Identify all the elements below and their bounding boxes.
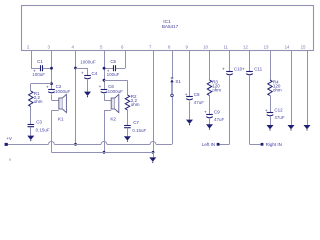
svg-text:+: + [242,67,245,72]
capacitor C8 [185,92,200,100]
svg-text:S1: S1 [175,79,181,84]
svg-text:+: + [46,84,49,89]
pin 11 label [223,44,228,49]
wire junction to C4 [76,68,88,75]
svg-text:11: 11 [223,44,228,49]
IC1 refdes label [163,19,171,25]
svg-text:C8: C8 [194,92,200,97]
wire C6 to K2 [104,94,106,100]
svg-text:ohm: ohm [212,87,221,92]
svg-text:12: 12 [243,44,248,49]
wire pin6 down [125,51,127,69]
resistor R4 [268,80,272,96]
wire S1 down to +V rail [172,97,174,145]
wire K2 down to ground bus [104,111,106,153]
svg-text:+: + [81,70,84,75]
pin 13 label [264,44,269,49]
wire pin15 down [307,51,309,126]
C4 value 1000uF [80,59,96,64]
K1 label [58,116,64,121]
svg-text:+: + [204,110,207,115]
wire junction to R1 [31,84,52,92]
S1 label [175,79,181,84]
C9 value 47uF [214,117,225,122]
stray speck [9,158,10,160]
svg-text:C9: C9 [214,110,220,115]
wire pin12 down [249,51,251,72]
R4 labels 120 ohm [273,79,282,92]
pin 10 label [203,44,208,49]
ground below C12 [267,125,274,131]
pin 14 label [285,44,290,49]
svg-text:0.15uF: 0.15uF [132,128,146,133]
svg-text:ohm: ohm [131,102,140,107]
capacitor C3 [28,119,43,126]
pin 12 label [243,44,248,49]
ground below C4 [84,92,91,98]
wire pin10 down [209,51,211,81]
resistor R1 [29,91,33,107]
capacitor C11 [242,67,263,75]
C12 value 47uF [274,115,285,120]
svg-text:C3: C3 [36,119,42,124]
+V supply rail [6,144,172,146]
wire C1 left [31,68,40,70]
R3 labels 120 ohm [212,79,221,92]
svg-text:47uF: 47uF [274,115,285,120]
switch S1 [170,78,173,97]
wire R3 to C9 [209,96,211,115]
speaker K2 [104,94,119,112]
node pin4/C4 junction [74,67,77,70]
wire K1 down to ground bus [51,111,53,153]
resistor R2 [125,95,129,110]
ground bus wire [51,152,153,154]
C2 value 1000uF [55,89,71,94]
Right IN label [266,142,282,147]
svg-text:Left IN: Left IN [202,142,215,147]
capacitor C9 [204,110,220,118]
wire C8 to ground [189,101,191,119]
pin 8 label [168,44,171,49]
wire C7 to ground [127,128,129,136]
C1 value 100uF [32,72,45,77]
svg-text:+V: +V [6,136,13,141]
wire hop over pin7 wire [150,142,156,145]
wire pin8 down [172,51,174,79]
wire pin7 down to ground bus [153,51,155,153]
C6 value 1000uF [108,89,124,94]
svg-text:C2: C2 [56,84,62,89]
node pin5/R2 junction [103,79,106,82]
svg-text:47uF: 47uF [194,100,205,105]
pin 9 label [186,44,189,49]
svg-text:0.15uF: 0.15uF [36,127,50,132]
capacitor C7 [124,120,139,128]
svg-text:+: + [222,67,225,72]
R1 labels 2.2 ohm [34,91,43,104]
wire C3 to ground [30,127,32,136]
ground below C7 [124,136,131,142]
wire pin14 down [291,51,293,126]
pin 5 label [100,44,103,49]
ground below pin14 [288,125,295,131]
svg-text:1000uF: 1000uF [80,59,96,64]
wire R4 to C12 [270,96,272,113]
svg-text:C7: C7 [133,120,139,125]
wire pin11 down [229,51,231,72]
svg-text:100uF: 100uF [32,72,45,77]
node pin3/C1 junction [50,67,53,70]
svg-text:1000uF: 1000uF [108,89,124,94]
wire C5 left [104,68,113,70]
svg-text:47uF: 47uF [214,117,225,122]
capacitor C10 [222,67,243,75]
pin 15 label [301,44,306,49]
pin 4 label [72,44,75,49]
svg-text:1000uF: 1000uF [55,89,71,94]
svg-text:C1: C1 [37,59,43,64]
C7 value 0.15uF [132,128,146,133]
ground symbol at bus end [149,152,156,163]
R2 labels 2.2 ohm [131,94,140,107]
svg-text:C5: C5 [110,59,116,64]
svg-text:+: + [99,84,102,89]
wire pin2 down [31,51,33,69]
wire pin5 down [104,51,106,90]
Left IN label [202,142,215,147]
capacitor C4 [81,70,98,78]
ground below C3 [27,136,34,142]
wire C12 to ground [270,117,272,125]
svg-text:K1: K1 [58,116,64,121]
C8 value 47uF [194,100,205,105]
ground below pin15 [304,125,311,131]
node pin4 on +V rail [74,143,77,146]
wire pin4 down to +V rail [75,51,77,145]
capacitor C5 [107,59,117,74]
C3 value 0.15uF [36,127,50,132]
pin 3 label [48,44,51,49]
svg-text:ohm: ohm [34,99,43,104]
wire C9 to ground [209,119,211,124]
wire C10 down to Left IN corner [220,76,230,145]
op-amp IC U1 body (BA5417) [22,6,314,51]
svg-text:10: 10 [203,44,208,49]
svg-text:13: 13 [264,44,269,49]
wire pin3 down [51,51,53,90]
wire R2 to C7 [127,110,129,126]
svg-text:BA5417: BA5417 [162,24,179,29]
svg-text:C11: C11 [254,67,262,72]
wire C4 to ground [87,80,89,92]
pin 2 label [27,44,30,49]
wire pin9 down [189,51,191,97]
svg-text:K2: K2 [110,116,116,121]
BA5417 value label [162,24,179,29]
pin 6 label [121,44,124,49]
wire C1 right [43,68,52,70]
svg-text:Right IN: Right IN [266,142,282,147]
ground below C8 [186,120,193,126]
svg-text:C4: C4 [92,71,98,76]
svg-text:C12: C12 [274,108,283,113]
node Left IN terminal [217,143,220,146]
node pin5/C5 junction [103,67,106,70]
wire hop over K1 wire [48,142,54,145]
pin 7 label [149,44,152,49]
wire R1 to C3 [30,107,32,125]
ground below C9 [206,124,213,130]
node pin3/R1 junction [50,82,53,85]
K2 label [110,116,116,121]
svg-text:14: 14 [285,44,290,49]
node Right IN terminal [261,143,264,146]
wire C11 down to Right IN corner [250,76,261,145]
svg-text:100uF: 100uF [107,72,120,77]
capacitor C1 [33,59,43,74]
wire hop over K2 wire [101,142,107,145]
node K2 on ground bus [103,151,106,154]
capacitor C12 [265,108,283,116]
node +V terminal [5,143,8,146]
wire junction to R2 [104,80,128,95]
capacitor C6 [99,84,115,93]
resistor R3 [207,80,211,96]
+V label [6,136,13,141]
wire C5 right [116,68,125,70]
wire pin13 down [270,51,272,81]
speaker K1 [51,94,66,112]
wire C2 to K1 [51,94,53,100]
C5 value 100uF [107,72,120,77]
node pin7 on ground bus [152,151,155,154]
svg-text:ohm: ohm [273,87,282,92]
capacitor C2 [46,84,62,93]
svg-text:15: 15 [301,44,306,49]
